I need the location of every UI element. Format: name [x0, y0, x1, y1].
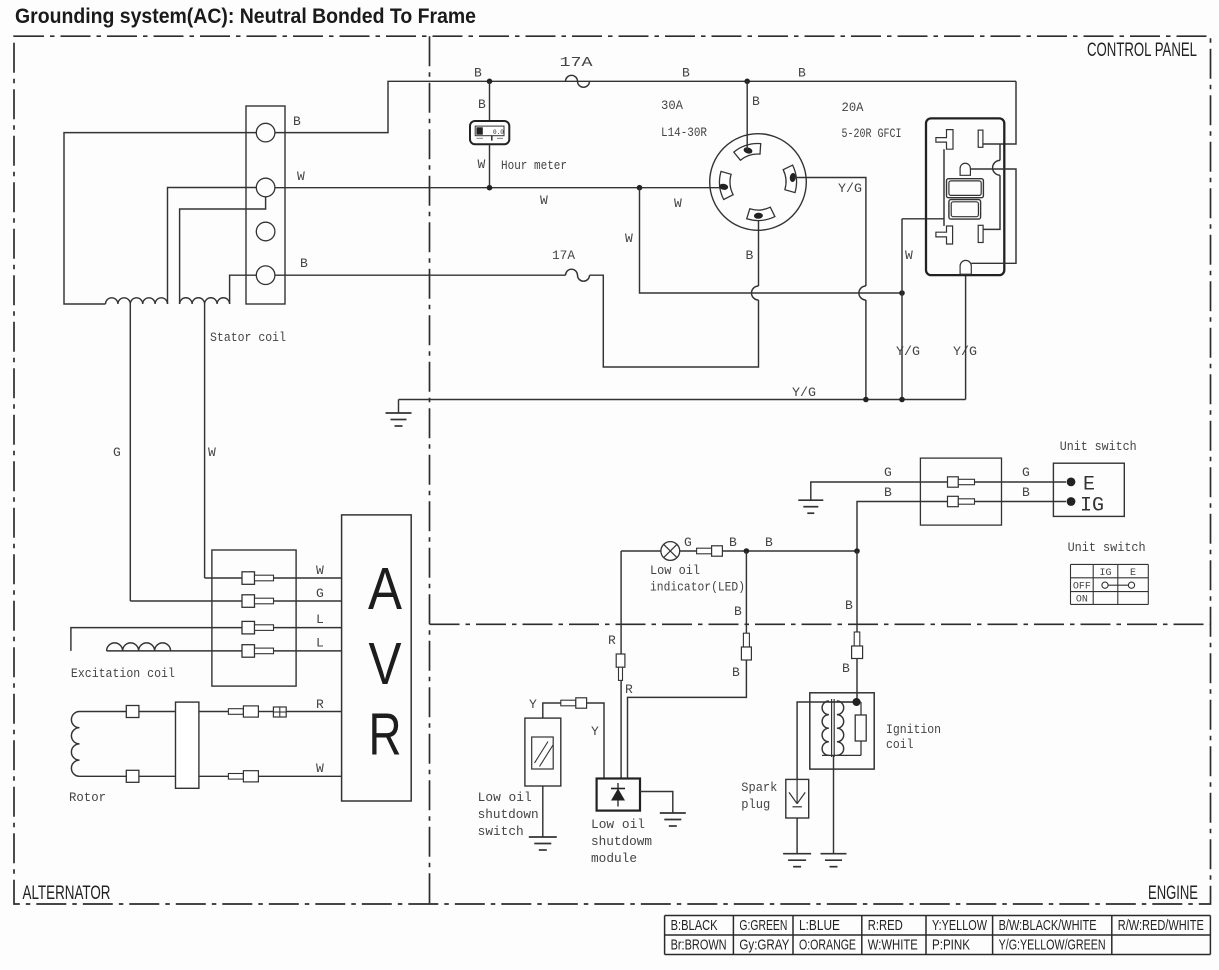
- svg-text:30A: 30A: [661, 98, 683, 113]
- hop B over W bus: [752, 286, 759, 300]
- wire L row lower: [107, 650, 242, 652]
- fuse F2 17A: [566, 269, 590, 281]
- L14 slot top: [734, 144, 761, 161]
- rotor top terminal: [126, 706, 139, 718]
- svg-text:module: module: [591, 852, 637, 866]
- low oil switch body: [525, 718, 561, 786]
- wire L row upper: [71, 628, 242, 651]
- svg-text:Low oil: Low oil: [591, 818, 645, 832]
- svg-text:B:BLACK: B:BLACK: [671, 917, 718, 934]
- noise suppressor: [273, 707, 286, 717]
- wire GFCI ground down: [965, 271, 967, 400]
- svg-text:IG: IG: [1099, 568, 1111, 579]
- svg-text:Stator coil: Stator coil: [210, 331, 286, 345]
- excitation coil winding: [107, 643, 171, 651]
- connector AVR 3: [242, 621, 255, 634]
- wire L14 top feed: [746, 81, 748, 150]
- svg-text:Y:YELLOW: Y:YELLOW: [932, 917, 988, 934]
- svg-text:B: B: [478, 97, 486, 112]
- unit switch box: [1053, 463, 1124, 516]
- junction B bus right: [854, 548, 860, 554]
- ignition top wire: [829, 701, 861, 703]
- low oil switch diag 2: [540, 745, 554, 767]
- wire W to AVR: [258, 775, 341, 777]
- GFCI internal left line: [943, 149, 945, 226]
- svg-text:CONTROL PANEL: CONTROL PANEL: [1087, 40, 1197, 61]
- AVR connector box: [212, 550, 296, 686]
- L14 contact bottom: [754, 213, 763, 219]
- ignition bottom wire: [822, 754, 861, 756]
- junction hour meter top: [487, 79, 493, 85]
- fuse F1 17A: [566, 75, 590, 87]
- svg-text:shutdown: shutdown: [478, 808, 539, 822]
- svg-text:Y: Y: [529, 697, 537, 712]
- ignition ground: [821, 853, 847, 855]
- svg-text:B: B: [798, 66, 806, 81]
- svg-text:E: E: [1083, 474, 1095, 497]
- wire switch up: [543, 703, 561, 718]
- rotor winding: [71, 712, 79, 777]
- wire ground to G: [811, 482, 1066, 500]
- wire module to ground: [640, 792, 673, 814]
- svg-text:ON: ON: [1076, 595, 1088, 606]
- wire ignition ground: [833, 755, 835, 853]
- connector G: [948, 477, 959, 487]
- wire B unit switch: [857, 502, 1066, 552]
- svg-text:Y/G:YELLOW/GREEN: Y/G:YELLOW/GREEN: [999, 937, 1106, 954]
- svg-text:E: E: [1130, 568, 1136, 579]
- module body: [597, 779, 640, 811]
- stator terminal 3: [256, 222, 275, 241]
- junction W GFCI: [899, 290, 905, 296]
- stator terminal 4: [256, 266, 275, 285]
- spark plug body: [786, 779, 809, 818]
- svg-text:G: G: [113, 445, 121, 460]
- low oil switch inner: [532, 737, 554, 769]
- wire hour meter to W bus: [489, 144, 491, 188]
- ignition secondary: [837, 701, 844, 755]
- connector R box: [616, 654, 625, 667]
- rotor bottom wire: [80, 775, 127, 777]
- GFCI test button: [960, 163, 970, 175]
- svg-text:Spark: Spark: [741, 781, 777, 795]
- svg-text:B: B: [845, 598, 853, 613]
- wire spark plug ground: [796, 818, 798, 854]
- L14 slot right: [783, 165, 796, 193]
- wire to L14 bottom slot: [758, 216, 760, 286]
- junction L14 feed: [744, 79, 750, 85]
- svg-text:R: R: [369, 702, 402, 768]
- svg-text:Grounding system(AC): Neutral: Grounding system(AC): Neutral Bonded To …: [15, 5, 476, 28]
- junction YG bond: [899, 397, 905, 403]
- svg-text:R:RED: R:RED: [868, 917, 903, 934]
- spark plug electrode: [796, 779, 798, 803]
- svg-text:B: B: [884, 485, 892, 500]
- svg-text:W: W: [625, 231, 633, 246]
- rotor bottom wire 3: [199, 775, 229, 777]
- svg-text:W:WHITE: W:WHITE: [868, 937, 918, 954]
- wire YG to frame ground: [398, 400, 400, 414]
- svg-text:O:ORANGE: O:ORANGE: [799, 937, 856, 954]
- connector W pin h: [228, 774, 243, 780]
- junction YG L14: [863, 397, 869, 403]
- svg-text:B: B: [734, 604, 742, 619]
- table OFF contact 2: [1128, 582, 1134, 588]
- svg-text:L:BLUE: L:BLUE: [799, 917, 840, 934]
- wire R to AVR: [258, 711, 273, 713]
- svg-text:ALTERNATOR: ALTERNATOR: [23, 883, 111, 904]
- wire W branch: [640, 188, 903, 293]
- GFCI slot top-right: [978, 130, 983, 147]
- svg-text:V: V: [369, 631, 403, 697]
- wire C4 to coil2 right: [230, 275, 257, 304]
- svg-text:B/W:BLACK/WHITE: B/W:BLACK/WHITE: [999, 917, 1097, 934]
- svg-text:Y: Y: [591, 724, 599, 739]
- unit switch ground: [798, 499, 823, 501]
- frame ground: [386, 412, 412, 414]
- ignition core: [831, 699, 833, 757]
- connector R pin: [619, 667, 623, 680]
- rotor top wire: [80, 711, 127, 713]
- rotor bottom wire 2: [139, 775, 176, 777]
- svg-text:L: L: [316, 612, 324, 627]
- junction B LED: [744, 548, 750, 554]
- svg-text:R: R: [625, 682, 633, 697]
- svg-text:Low oil: Low oil: [478, 791, 532, 805]
- connector LED: [697, 548, 712, 554]
- spark plug ground: [783, 853, 811, 855]
- svg-text:ENGINE: ENGINE: [1148, 883, 1198, 904]
- svg-text:B: B: [732, 665, 740, 680]
- connector R box h: [243, 706, 258, 717]
- GFCI button inner 1: [949, 181, 981, 196]
- svg-text:Hour meter: Hour meter: [501, 158, 567, 173]
- ignition coil box: [810, 693, 874, 769]
- wire spark plug up: [797, 702, 856, 779]
- wire YG down: [865, 300, 867, 400]
- svg-text:R: R: [608, 633, 616, 648]
- wire C1 to top bus: [275, 81, 1016, 132]
- wire LED B bus: [722, 550, 857, 552]
- wire R down: [620, 551, 622, 654]
- GFCI slot bottom-right: [978, 225, 983, 242]
- wire R to module: [620, 680, 622, 778]
- svg-text:B: B: [746, 248, 754, 263]
- wire B ign down: [856, 659, 858, 703]
- svg-text:R/W:RED/WHITE: R/W:RED/WHITE: [1118, 917, 1204, 934]
- GFCI slot bottom-left T: [936, 226, 953, 244]
- svg-text:B: B: [300, 256, 308, 271]
- ignition resistor: [855, 715, 866, 741]
- wire bus to hour meter: [489, 81, 491, 121]
- svg-text:5-20R GFCI: 5-20R GFCI: [842, 126, 902, 141]
- svg-text:Gy:GRAY: Gy:GRAY: [739, 937, 789, 954]
- wire L14 right to YG: [794, 178, 866, 287]
- svg-text:B: B: [842, 661, 850, 676]
- connector B box: [741, 647, 751, 660]
- hour meter body: [470, 121, 509, 144]
- svg-text:W: W: [316, 761, 324, 776]
- svg-text:G: G: [684, 535, 692, 550]
- svg-text:Y/G: Y/G: [896, 344, 920, 359]
- svg-text:17A: 17A: [552, 249, 575, 263]
- wire switch to ground: [542, 786, 544, 837]
- connector B ign box: [852, 646, 863, 659]
- svg-text:P:PINK: P:PINK: [932, 937, 970, 954]
- connector AVR 4: [242, 645, 255, 658]
- svg-text:W: W: [540, 193, 548, 208]
- svg-text:L14-30R: L14-30R: [661, 125, 707, 140]
- L14 contact right: [789, 173, 796, 183]
- junction ignition B: [853, 698, 861, 706]
- Y/G bus: [399, 399, 966, 401]
- svg-text:indicator(LED): indicator(LED): [650, 581, 745, 595]
- svg-text:G:GREEN: G:GREEN: [739, 917, 787, 934]
- table OFF contact line: [1105, 584, 1132, 586]
- GFCI internal hop: [993, 160, 1000, 175]
- svg-text:W: W: [674, 196, 682, 211]
- svg-text:B: B: [765, 535, 773, 550]
- GFCI reset button: [960, 260, 971, 274]
- unit switch connector box: [920, 458, 1001, 525]
- svg-text:W: W: [297, 169, 305, 184]
- stator terminal 1: [256, 123, 275, 142]
- AVR box: [342, 515, 412, 801]
- wire GFCI neutral bond: [901, 219, 903, 400]
- wire LED left: [621, 550, 661, 552]
- rotor top wire 2: [139, 711, 176, 713]
- wire C4 to fuse: [275, 274, 566, 276]
- stator terminal 2: [256, 178, 275, 197]
- svg-text:plug: plug: [741, 798, 770, 812]
- wire C1 to coil1 left: [64, 133, 256, 304]
- module diode: [617, 783, 619, 807]
- wire LED to connector: [680, 550, 697, 552]
- svg-text:switch: switch: [478, 825, 524, 839]
- unit switch table grid: [1071, 563, 1149, 565]
- stator coil 1 winding: [106, 298, 168, 304]
- hour meter dark block: [476, 127, 482, 134]
- table OFF contact 1: [1102, 582, 1108, 588]
- svg-text:B: B: [293, 114, 301, 129]
- GFCI test wire: [970, 169, 1016, 263]
- rotor bottom terminal: [126, 770, 139, 782]
- unit switch E contact: [1067, 478, 1076, 487]
- rotor top wire 3: [199, 711, 229, 713]
- connector W box h: [243, 771, 258, 782]
- svg-text:B: B: [682, 66, 690, 81]
- junction W hour meter: [487, 185, 493, 191]
- svg-text:Ignition: Ignition: [886, 723, 941, 737]
- wire G row: [130, 600, 242, 602]
- connector B pin: [743, 633, 749, 647]
- svg-text:17A: 17A: [560, 55, 594, 71]
- unit switch IG contact: [1067, 497, 1076, 506]
- svg-text:L: L: [316, 636, 324, 651]
- svg-text:W: W: [316, 563, 324, 578]
- svg-text:20A: 20A: [842, 100, 864, 115]
- wire B to module: [628, 660, 747, 779]
- GFCI hot wire internal: [983, 175, 1000, 229]
- wire W bus: [275, 187, 724, 189]
- wire C2 bottom to coil2 left: [180, 197, 266, 304]
- hour meter display: [475, 126, 504, 136]
- L14 slot bottom: [747, 207, 775, 220]
- connector B ign pin: [854, 632, 860, 646]
- connector AVR 2: [242, 595, 255, 608]
- wire B down: [745, 551, 747, 633]
- wire C2 to coil1 right: [168, 188, 257, 305]
- legend grid: [665, 915, 1211, 917]
- wire B ign up: [856, 551, 858, 632]
- hop YG over W bus: [859, 286, 866, 300]
- connector R pin h: [228, 709, 243, 715]
- L14 slot left: [720, 171, 734, 199]
- GFCI body: [926, 118, 1004, 275]
- connector Y: [561, 700, 576, 706]
- svg-text:Rotor: Rotor: [69, 791, 106, 805]
- GFCI button outer 1: [947, 179, 984, 198]
- svg-text:coil: coil: [886, 738, 914, 752]
- svg-text:IG: IG: [1080, 495, 1104, 518]
- svg-text:G: G: [316, 586, 324, 601]
- svg-text:B: B: [752, 94, 760, 109]
- module ground: [660, 812, 686, 814]
- GFCI internal line up: [999, 144, 1001, 160]
- L14 contact top: [743, 146, 753, 154]
- svg-text:A: A: [368, 556, 403, 622]
- wire Y to module: [587, 703, 604, 779]
- low oil switch diag 1: [535, 742, 549, 764]
- svg-text:B: B: [729, 535, 737, 550]
- svg-text:G: G: [1022, 465, 1030, 480]
- hour meter marks: [477, 137, 484, 139]
- stator coil 2 winding: [180, 298, 230, 304]
- svg-text:B: B: [1022, 485, 1030, 500]
- divider alternator vertical: [429, 36, 431, 904]
- hour meter tick: [491, 136, 493, 141]
- GFCI button outer 2: [949, 200, 981, 220]
- svg-text:W: W: [905, 248, 913, 263]
- svg-text:R: R: [316, 697, 324, 712]
- svg-text:Unit switch: Unit switch: [1068, 541, 1146, 555]
- svg-text:0.0: 0.0: [493, 129, 504, 136]
- receptacle L14-30R outline: [710, 134, 807, 231]
- wire top bus to GFCI hot: [983, 81, 1016, 144]
- wire W row: [205, 577, 242, 579]
- rotor slip ring block: [176, 702, 199, 788]
- ignition primary: [822, 701, 829, 755]
- switch ground: [529, 836, 557, 838]
- svg-text:OFF: OFF: [1073, 582, 1091, 593]
- svg-text:Unit switch: Unit switch: [1060, 440, 1137, 454]
- svg-text:Y/G: Y/G: [792, 385, 816, 400]
- wire fuse to L14 bottom: [590, 275, 759, 367]
- L14 contact left: [719, 183, 729, 190]
- connector AVR 1: [242, 572, 255, 585]
- svg-text:Low oil: Low oil: [650, 564, 700, 578]
- wire GFCI neutral entry: [902, 218, 944, 220]
- connector B: [948, 496, 959, 506]
- stator terminal block: [246, 106, 285, 304]
- wire coil2 tap W down: [204, 304, 206, 578]
- svg-text:W: W: [478, 157, 486, 172]
- junction W branch: [637, 185, 643, 191]
- svg-text:Br:BROWN: Br:BROWN: [671, 937, 727, 954]
- svg-text:Y/G: Y/G: [838, 181, 862, 196]
- svg-text:W: W: [208, 445, 216, 460]
- svg-text:shutdowm: shutdowm: [591, 835, 652, 849]
- svg-text:G: G: [884, 465, 892, 480]
- LED lamp: [661, 542, 680, 561]
- svg-text:B: B: [474, 66, 482, 81]
- GFCI slot top-left T: [936, 130, 953, 150]
- divider engine horizontal: [430, 623, 1211, 625]
- svg-text:Excitation coil: Excitation coil: [71, 667, 175, 681]
- wire coil1 tap G down: [129, 304, 131, 601]
- GFCI button inner 2: [951, 202, 978, 217]
